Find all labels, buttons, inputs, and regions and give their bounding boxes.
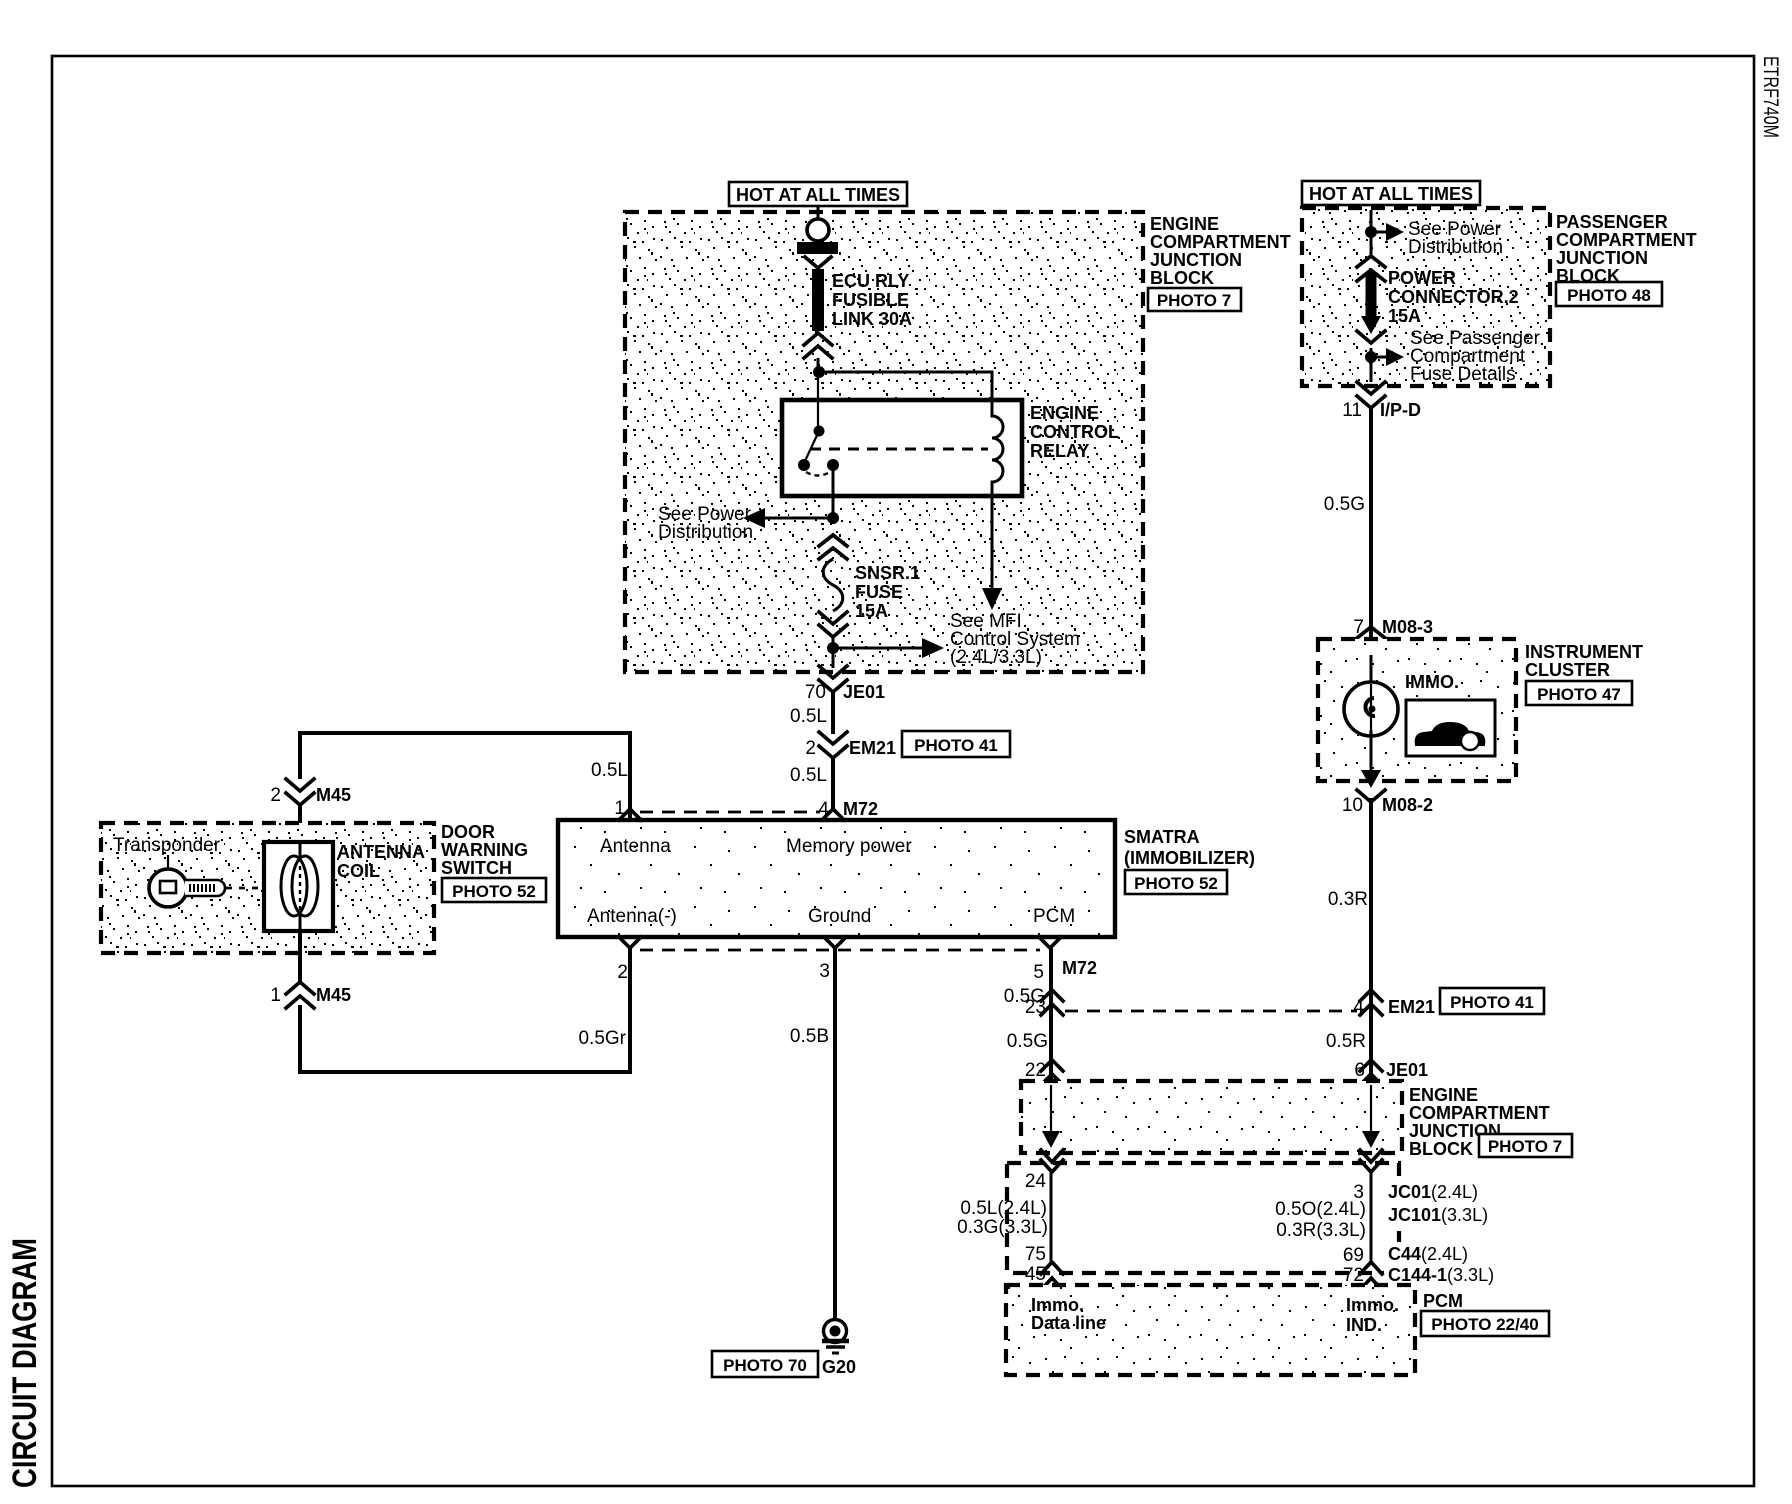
svg-text:0.5G: 0.5G (1324, 494, 1365, 515)
svg-text:PHOTO 48: PHOTO 48 (1567, 286, 1651, 305)
label box PHOTO 7 (lower) (1479, 1134, 1572, 1157)
dashed coupling line key to coil (226, 887, 288, 890)
svg-text:0.5L: 0.5L (591, 760, 628, 781)
wire bottom loop back to SMATRA antenna(-) (300, 946, 630, 1072)
svg-text:POWER: POWER (1388, 268, 1456, 288)
svg-text:PHOTO 22/40: PHOTO 22/40 (1431, 1315, 1538, 1334)
svg-text:3: 3 (819, 961, 830, 982)
svg-text:0.3R(3.3L): 0.3R(3.3L) (1276, 1220, 1366, 1241)
label box PHOTO 52 (door warning switch) (442, 878, 546, 902)
wire 3 to 69/72 (1370, 1172, 1373, 1262)
label box PHOTO 7 (1148, 288, 1241, 311)
PCM dashed border (1006, 1285, 1415, 1375)
svg-text:1: 1 (270, 985, 281, 1006)
wire JE01 to EM21 (831, 692, 835, 734)
wire inside junction block (right) (1370, 1085, 1372, 1132)
svg-text:0.5G: 0.5G (1007, 1031, 1048, 1052)
svg-text:JUNCTION: JUNCTION (1150, 250, 1242, 270)
svg-text:PCM: PCM (1423, 1291, 1463, 1311)
svg-text:11: 11 (1342, 400, 1362, 421)
svg-text:PHOTO 52: PHOTO 52 (1134, 874, 1218, 893)
arrow down to See MFI (coil side) (982, 588, 1002, 610)
wire leaving junction block (832, 648, 835, 668)
svg-text:ENGINE: ENGINE (1030, 403, 1099, 423)
svg-text:M08-3: M08-3 (1382, 617, 1433, 637)
relay coil output wire down (991, 496, 994, 594)
POWER CONNECTOR.2 15A element (1366, 272, 1377, 316)
harness dashed box (1007, 1163, 1399, 1273)
wire below coil (298, 931, 302, 983)
label box PHOTO 47 (1526, 681, 1632, 705)
wire I/P-D to M08-3 (1369, 408, 1373, 646)
svg-text:PHOTO 47: PHOTO 47 (1537, 685, 1621, 704)
arrow out of junction block (left) (1042, 1131, 1060, 1148)
svg-text:C44(2.4L): C44(2.4L) (1388, 1244, 1468, 1264)
ground symbol bars (822, 1339, 849, 1343)
svg-text:(2.4L/3.3L): (2.4L/3.3L) (950, 647, 1042, 668)
connector chevrons above power connector (1357, 256, 1385, 281)
svg-text:Antenna: Antenna (600, 836, 671, 857)
svg-text:EM21: EM21 (849, 738, 896, 758)
svg-text:0.3G(3.3L): 0.3G(3.3L) (957, 1217, 1048, 1238)
svg-text:5: 5 (1033, 962, 1044, 983)
battery feed ring terminal (817, 205, 820, 219)
connector chevrons M45 pin 2 (286, 779, 314, 805)
passenger junction block dashed border (1302, 208, 1550, 386)
svg-text:(IMMOBILIZER): (IMMOBILIZER) (1124, 848, 1255, 868)
svg-text:WARNING: WARNING (441, 840, 528, 860)
key blade teeth (190, 884, 214, 892)
arrow to See Power Distribution (right) (1371, 231, 1390, 234)
svg-text:PHOTO 70: PHOTO 70 (723, 1356, 807, 1375)
antenna coil winding ellipses (281, 856, 307, 916)
svg-text:CONTROL: CONTROL (1030, 422, 1119, 442)
svg-text:JUNCTION: JUNCTION (1556, 248, 1648, 268)
svg-text:ANTENNA: ANTENNA (337, 842, 425, 862)
pin triangle antenna(-) (bottom) (619, 937, 641, 948)
svg-text:FUSE: FUSE (855, 582, 903, 602)
label box PHOTO 52 (SMATRA) (1125, 870, 1227, 894)
key blade (185, 880, 225, 896)
wire into bulb (1370, 655, 1373, 684)
relay output wire (switch side) (832, 465, 835, 518)
relay switch arm contact (798, 459, 810, 471)
junction block shaded area (625, 212, 1143, 672)
connector chevrons below fusible link (804, 333, 832, 358)
svg-text:BLOCK: BLOCK (1150, 268, 1214, 288)
svg-text:LINK 30A: LINK 30A (832, 309, 912, 329)
svg-text:Immo.: Immo. (1031, 1295, 1084, 1315)
pin triangle PCM (bottom) (1039, 937, 1061, 948)
svg-text:SMATRA: SMATRA (1124, 827, 1200, 847)
svg-text:2: 2 (805, 738, 816, 759)
label box PHOTO 41 (right) (1440, 988, 1544, 1014)
PCM shaded area (1006, 1285, 1415, 1375)
instrument cluster dashed border (1318, 639, 1516, 781)
svg-text:Distribution: Distribution (658, 522, 753, 543)
feed wire (1370, 210, 1373, 256)
svg-text:0.3R: 0.3R (1328, 889, 1368, 910)
svg-text:M08-2: M08-2 (1382, 795, 1433, 815)
relay coil (992, 400, 1003, 496)
label HOT AT ALL TIMES (right) (1302, 181, 1480, 205)
arrow from label to key (167, 855, 169, 872)
car icon wheel (1461, 732, 1479, 750)
arrow to See Passenger Compartment Fuse Details (1371, 356, 1390, 359)
label HOT AT ALL TIMES (left) (729, 182, 907, 206)
label box PHOTO 48 (1556, 282, 1662, 306)
coil axis dashed (299, 858, 301, 915)
pin triangle antenna (top) (619, 809, 641, 820)
svg-text:C144-1(3.3L): C144-1(3.3L) (1388, 1265, 1494, 1285)
connector arrow M08-2 (1361, 770, 1381, 788)
wire through bulb down (1370, 730, 1373, 774)
connector chevrons below fuse (819, 612, 847, 637)
pin triangle memory power (top) (822, 809, 844, 820)
dashed connector line above SMATRA (M72) (640, 811, 820, 814)
ground wire (833, 948, 837, 1319)
dashed connector line EM21 (1065, 1010, 1357, 1013)
svg-text:INSTRUMENT: INSTRUMENT (1525, 642, 1643, 662)
transponder key head (149, 869, 187, 907)
svg-text:COMPARTMENT: COMPARTMENT (1409, 1103, 1550, 1123)
car icon silhouette (1415, 722, 1486, 745)
wire to See Power Distribution (757, 517, 833, 520)
arrow to See MFI (922, 638, 944, 658)
relay fixed contact (827, 459, 839, 471)
fuse SNSR.1 15A (wavy element) (823, 559, 843, 611)
passenger junction block shaded area (1302, 208, 1550, 386)
svg-text:ENGINE: ENGINE (1150, 214, 1219, 234)
label backing (1384, 1180, 1504, 1224)
ground terminal ring (824, 1320, 847, 1343)
connector chevrons into PCM (right) (1360, 1262, 1382, 1290)
svg-text:M72: M72 (1062, 958, 1097, 978)
bus bar (797, 242, 838, 254)
label backing (1384, 1242, 1504, 1284)
wire 24 to 75/45 (1050, 1172, 1053, 1262)
svg-text:PHOTO 52: PHOTO 52 (452, 882, 536, 901)
svg-text:75: 75 (1025, 1244, 1046, 1265)
ENGINE CONTROL RELAY box (782, 400, 1022, 496)
wire branch to relay coil (top) (819, 372, 992, 400)
svg-text:ECU RLY: ECU RLY (832, 271, 909, 291)
relay throw motion dashed arc (806, 472, 830, 476)
svg-text:Ground: Ground (808, 906, 871, 927)
instrument cluster shaded area (1318, 639, 1516, 781)
connector chevrons JE01 (819, 666, 847, 692)
svg-text:G20: G20 (822, 1357, 856, 1377)
wire to See MFI (833, 647, 928, 650)
wire into transponder box (298, 805, 302, 842)
label box PHOTO 41 (902, 731, 1010, 757)
svg-text:I/P-D: I/P-D (1380, 400, 1421, 420)
wire through coil (upper stub) (299, 842, 302, 860)
node below relay (827, 512, 839, 524)
svg-text:SWITCH: SWITCH (441, 858, 512, 878)
wire to fuse details branch (1370, 348, 1373, 382)
svg-text:HOT AT ALL TIMES: HOT AT ALL TIMES (736, 185, 900, 205)
arrow out of junction block (right) (1362, 1131, 1380, 1148)
relay switch pivot (814, 426, 825, 437)
connector chevrons 23 (1041, 990, 1063, 1015)
wire inside bulb (1370, 684, 1372, 734)
svg-text:2: 2 (270, 785, 281, 806)
svg-text:Antenna(-): Antenna(-) (587, 906, 677, 927)
node at relay feed (813, 366, 825, 378)
node to power distribution (1365, 226, 1377, 238)
transponder chip (160, 881, 176, 893)
svg-text:HOT AT ALL TIMES: HOT AT ALL TIMES (1309, 184, 1473, 204)
connector chevrons M45 pin 1 (286, 982, 314, 1008)
svg-text:M72: M72 (843, 799, 878, 819)
svg-text:PASSENGER: PASSENGER (1556, 212, 1668, 232)
svg-text:M45: M45 (316, 985, 351, 1005)
relay mechanical link dashed line (810, 448, 988, 451)
pin triangle ground (bottom) (824, 937, 846, 948)
svg-text:15A: 15A (1388, 306, 1421, 326)
svg-text:JE01: JE01 (843, 682, 885, 702)
svg-text:CIRCUIT DIAGRAM: CIRCUIT DIAGRAM (6, 1238, 44, 1488)
IMMO indicator bulb (1344, 682, 1398, 736)
svg-text:PHOTO 41: PHOTO 41 (1450, 993, 1534, 1012)
transponder/door warning switch shaded area (101, 823, 434, 953)
wire SMATRA pin5 down (1049, 948, 1053, 1081)
svg-text:BLOCK: BLOCK (1409, 1139, 1473, 1159)
svg-text:10: 10 (1342, 795, 1363, 816)
wire through coil (lower stub) (299, 914, 302, 931)
connector chevron below bus bar (805, 257, 831, 268)
svg-text:Fuse Details: Fuse Details (1410, 364, 1516, 385)
svg-text:ETRF740M: ETRF740M (1759, 56, 1782, 138)
connector chevrons JE01 (right) (1360, 1060, 1382, 1085)
svg-text:COMPARTMENT: COMPARTMENT (1556, 230, 1697, 250)
svg-text:69: 69 (1343, 1245, 1364, 1266)
svg-text:0.5L(2.4L): 0.5L(2.4L) (960, 1198, 1047, 1219)
immobilizer car icon frame (1406, 700, 1495, 756)
connector chevrons into PCM (left) (1041, 1262, 1063, 1290)
svg-text:Memory power: Memory power (786, 836, 912, 857)
svg-text:SNSR.1: SNSR.1 (855, 563, 920, 583)
bulb filament (1365, 698, 1375, 716)
svg-text:Transponder: Transponder (113, 835, 221, 856)
wire from fuse to node (832, 637, 835, 648)
svg-text:Data line: Data line (1031, 1313, 1106, 1333)
svg-text:0.5Gr: 0.5Gr (578, 1028, 626, 1049)
svg-text:JC01(2.4L): JC01(2.4L) (1388, 1182, 1478, 1202)
svg-text:24: 24 (1025, 1171, 1047, 1192)
svg-text:ENGINE: ENGINE (1409, 1085, 1478, 1105)
svg-text:JE01: JE01 (1386, 1060, 1428, 1080)
svg-text:M45: M45 (316, 785, 351, 805)
svg-text:RELAY: RELAY (1030, 441, 1089, 461)
svg-text:PHOTO 7: PHOTO 7 (1488, 1137, 1562, 1156)
node fuse details (1365, 351, 1377, 363)
svg-text:EM21: EM21 (1388, 997, 1435, 1017)
svg-text:COIL: COIL (337, 861, 380, 881)
connector chevrons 22 (1041, 1060, 1063, 1085)
svg-text:IND.: IND. (1346, 1315, 1382, 1335)
fusible link ECU RLY 30A (thick element) (812, 269, 824, 331)
arrow to See Power Distribution (743, 508, 765, 528)
connector chevrons EM21 (819, 732, 847, 758)
chevron below power connector (1357, 331, 1385, 343)
wire top loop (SMATRA antenna to coil) (300, 733, 630, 820)
svg-text:PCM: PCM (1033, 906, 1075, 927)
node at MFI branch (827, 642, 839, 654)
svg-text:FUSIBLE: FUSIBLE (832, 290, 909, 310)
svg-text:CONNECTOR.2: CONNECTOR.2 (1388, 287, 1519, 307)
transponder dashed box (101, 823, 434, 953)
svg-text:PHOTO 7: PHOTO 7 (1157, 291, 1231, 310)
SMATRA box (558, 820, 1115, 937)
antenna coil box (264, 842, 333, 931)
wire EM21 to M72 (831, 758, 835, 812)
wire inside junction block (left) (1050, 1085, 1052, 1132)
junction block dashed border (625, 212, 1143, 672)
svg-text:0.5O(2.4L): 0.5O(2.4L) (1275, 1199, 1366, 1220)
svg-text:23: 23 (1025, 997, 1046, 1018)
label box PHOTO 22/40 (1421, 1311, 1549, 1336)
svg-text:15A: 15A (855, 601, 888, 621)
relay switch arm (805, 431, 819, 461)
connector chevrons EM21 (right) (1360, 990, 1382, 1015)
svg-text:DOOR: DOOR (441, 822, 495, 842)
svg-text:JC101(3.3L): JC101(3.3L) (1388, 1205, 1488, 1225)
svg-text:CLUSTER: CLUSTER (1525, 660, 1610, 680)
svg-text:0.5R: 0.5R (1326, 1031, 1366, 1052)
connector chevrons M08-3 (1357, 627, 1385, 652)
svg-text:2: 2 (617, 962, 628, 983)
svg-text:Distribution: Distribution (1408, 237, 1503, 258)
junction block dashed border (1021, 1081, 1402, 1153)
svg-text:IMMO.: IMMO. (1405, 672, 1459, 692)
wire from fusible link to node (817, 358, 820, 372)
svg-text:COMPARTMENT: COMPARTMENT (1150, 232, 1291, 252)
connector chevrons I/P-D (1357, 382, 1385, 408)
svg-text:0.5B: 0.5B (790, 1026, 829, 1047)
svg-text:4: 4 (1353, 997, 1364, 1018)
dashed connector line below SMATRA (M72) (640, 949, 1040, 952)
svg-text:Immo.: Immo. (1346, 1295, 1399, 1315)
arrow end of power connector (1361, 316, 1381, 334)
svg-text:70: 70 (805, 682, 826, 703)
label box PHOTO 70 (712, 1351, 818, 1377)
svg-text:PHOTO 41: PHOTO 41 (914, 736, 998, 755)
svg-text:0.5L: 0.5L (790, 706, 827, 727)
connector chevrons above fuse (819, 535, 847, 559)
svg-text:0.5L: 0.5L (790, 765, 827, 786)
wire M08-2 to EM21 (1369, 798, 1373, 1081)
relay switch input wire (817, 372, 819, 431)
junction block shaded area (1021, 1081, 1402, 1153)
